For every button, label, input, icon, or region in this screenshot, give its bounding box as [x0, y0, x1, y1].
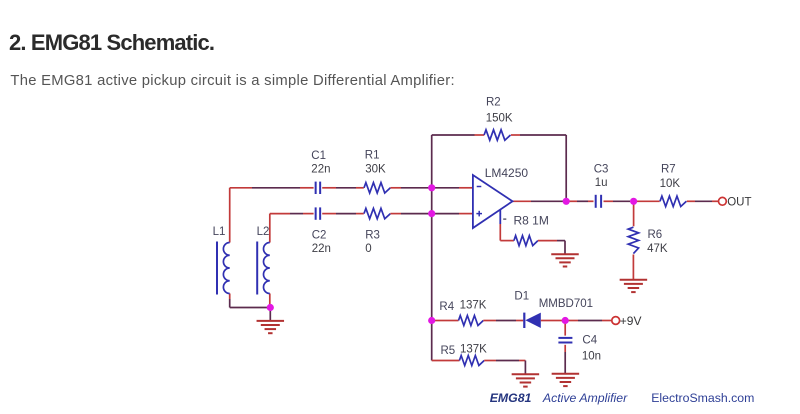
svg-text:+9V: +9V — [620, 314, 642, 328]
svg-text:L1: L1 — [213, 226, 226, 238]
svg-text:137K: 137K — [460, 344, 487, 356]
svg-text:R5: R5 — [441, 345, 456, 357]
svg-text:C1: C1 — [311, 150, 326, 162]
svg-text:R4: R4 — [439, 301, 454, 313]
svg-text:L2: L2 — [257, 226, 270, 238]
svg-text:22n: 22n — [312, 243, 331, 255]
svg-text:The EMG81 active pickup circui: The EMG81 active pickup circuit is a sim… — [10, 73, 454, 89]
svg-text:R1: R1 — [365, 150, 380, 162]
svg-text:R6: R6 — [648, 229, 663, 241]
svg-text:MMBD701: MMBD701 — [539, 298, 593, 310]
svg-text:10K: 10K — [660, 178, 681, 190]
svg-text:C4: C4 — [582, 335, 597, 347]
svg-text:Active Amplifier: Active Amplifier — [542, 391, 628, 405]
svg-text:10n: 10n — [582, 351, 601, 363]
svg-text:30K: 30K — [365, 163, 386, 175]
svg-text:C3: C3 — [594, 164, 609, 176]
svg-text:1u: 1u — [595, 177, 608, 189]
svg-text:ElectroSmash.com: ElectroSmash.com — [651, 391, 754, 405]
svg-text:137K: 137K — [460, 299, 487, 311]
svg-text:EMG81: EMG81 — [490, 391, 532, 405]
svg-text:0: 0 — [365, 243, 371, 255]
svg-text:R7: R7 — [661, 164, 676, 176]
svg-text:47K: 47K — [647, 243, 668, 255]
svg-text:LM4250: LM4250 — [485, 166, 529, 180]
svg-text:150K: 150K — [486, 113, 513, 125]
svg-text:R3: R3 — [365, 229, 380, 241]
svg-text:2. EMG81 Schematic.: 2. EMG81 Schematic. — [9, 30, 214, 55]
svg-text:R2: R2 — [486, 97, 501, 109]
svg-text:R8 1M: R8 1M — [514, 214, 549, 228]
svg-text:OUT: OUT — [727, 196, 751, 208]
svg-text:22n: 22n — [311, 163, 330, 175]
svg-text:C2: C2 — [312, 230, 327, 242]
svg-text:D1: D1 — [514, 291, 529, 303]
